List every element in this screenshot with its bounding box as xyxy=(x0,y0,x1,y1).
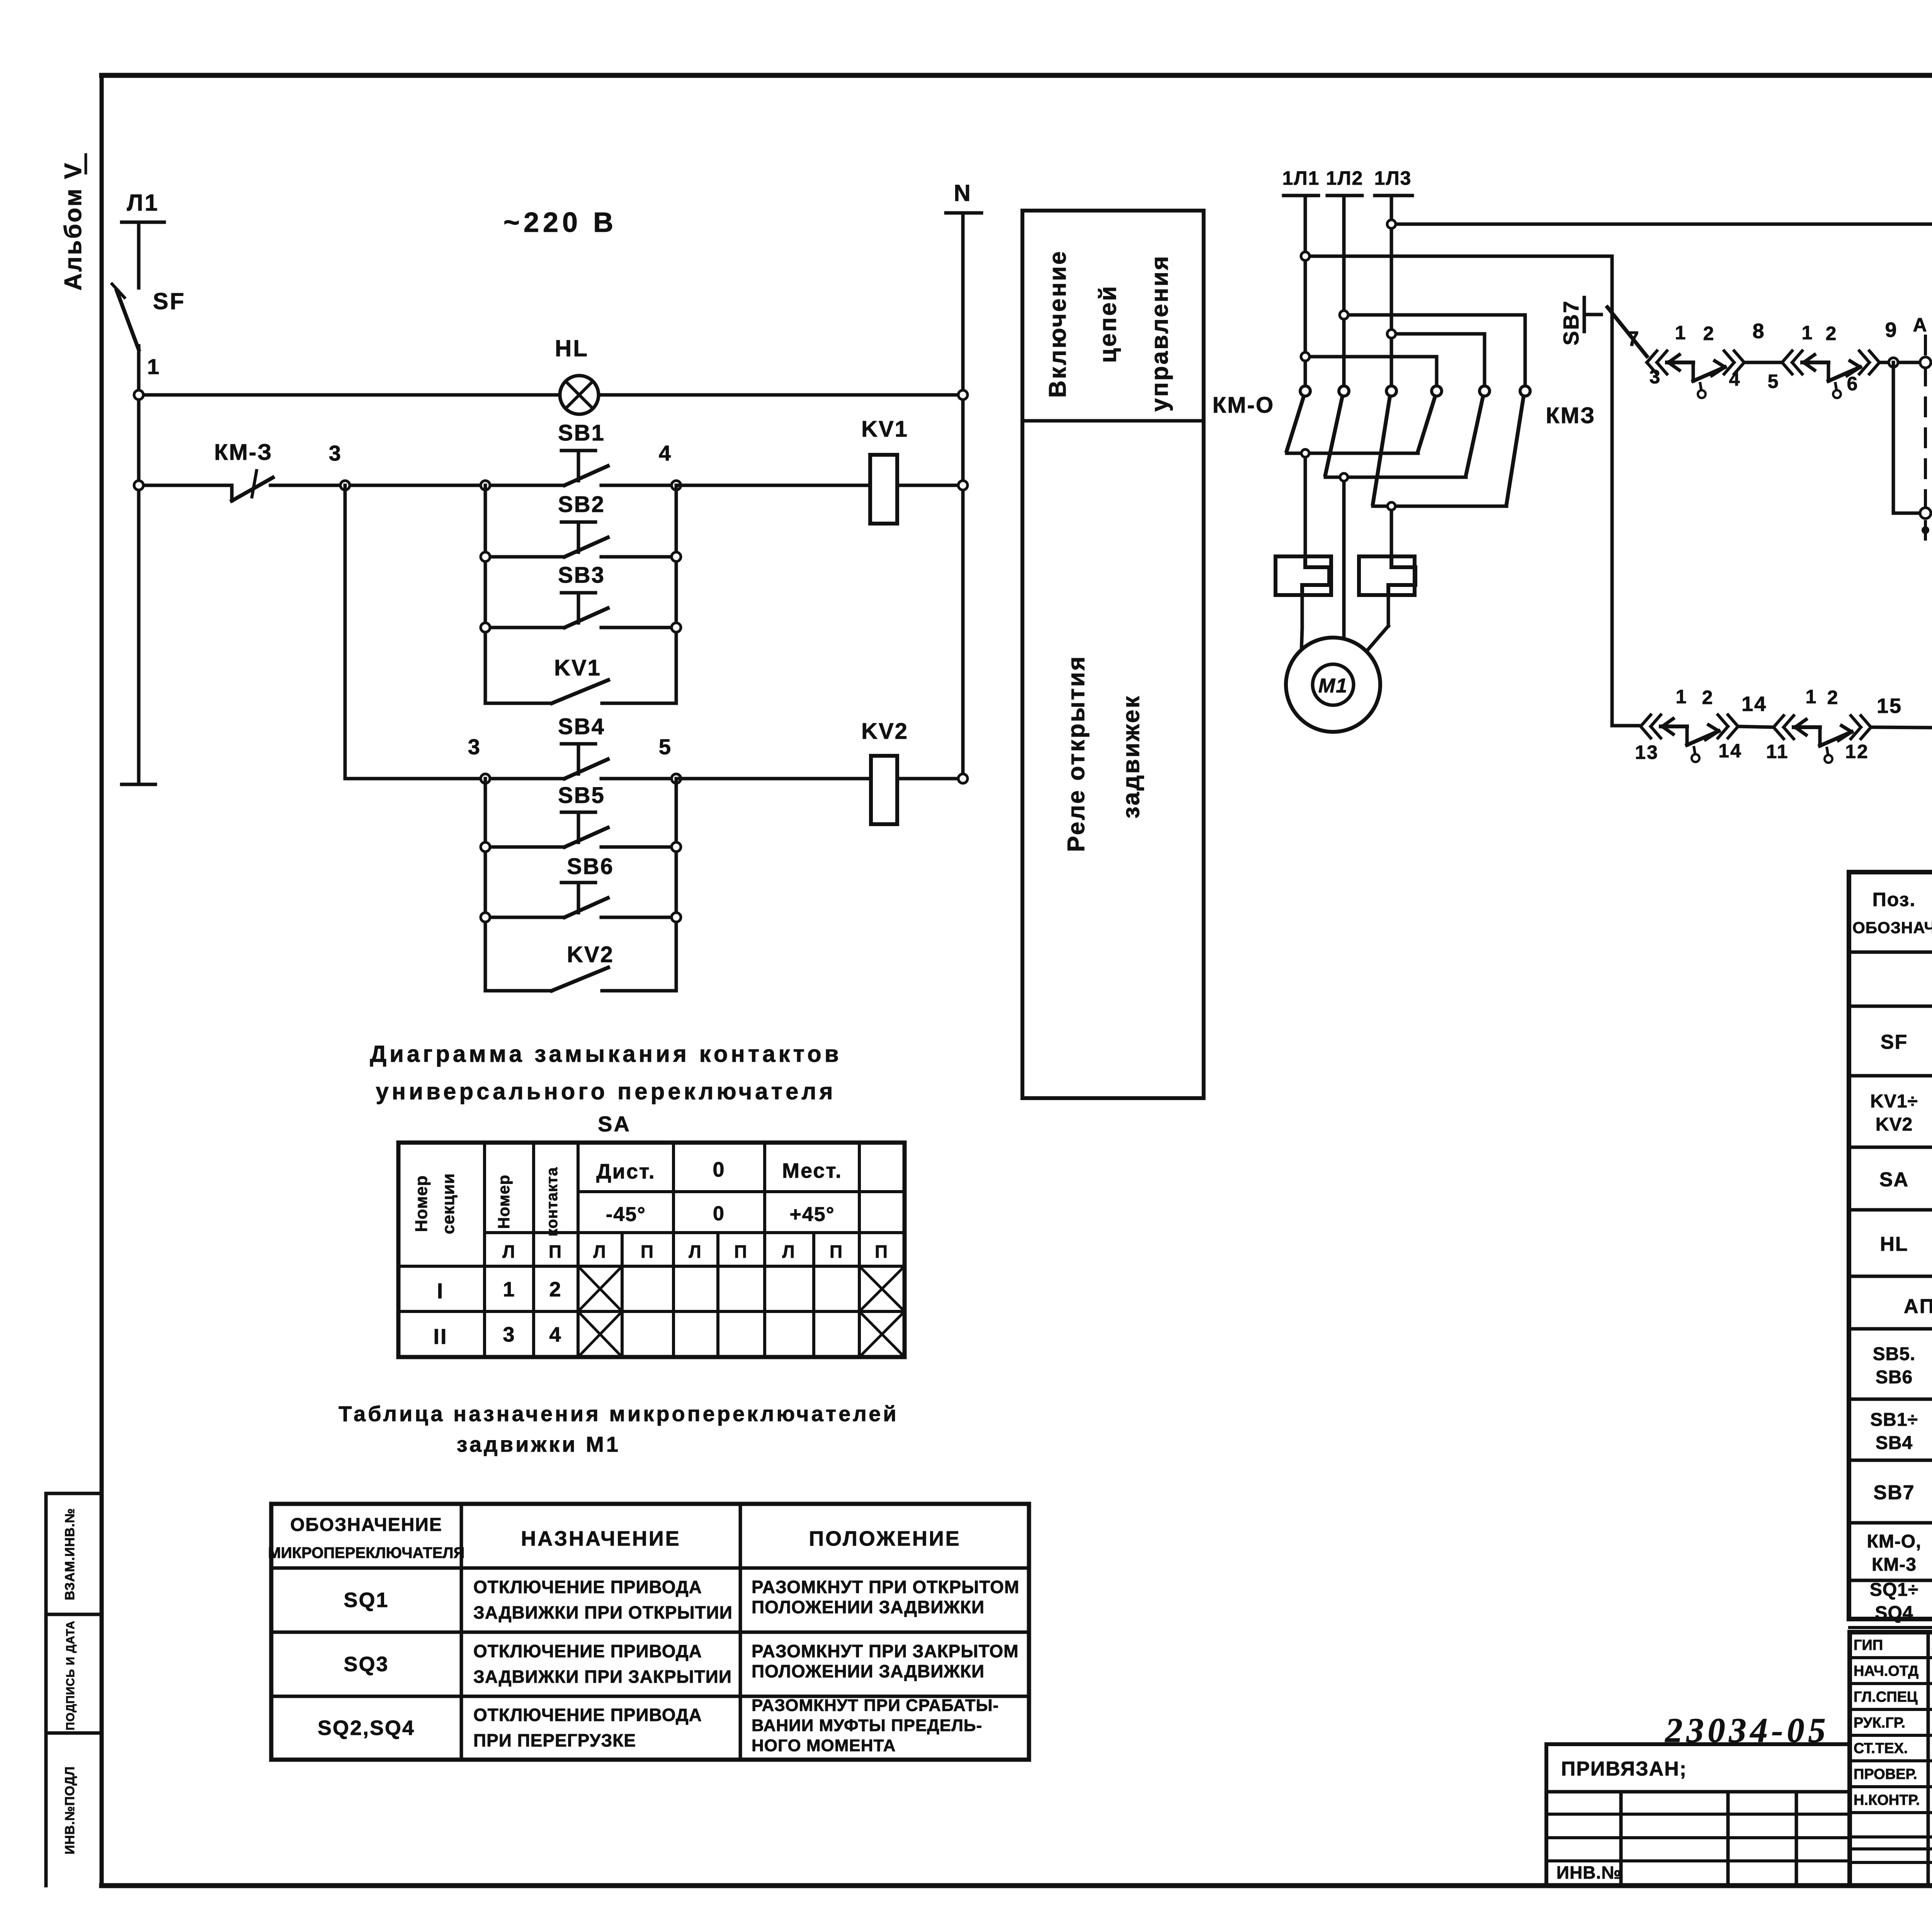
svg-text:SB4: SB4 xyxy=(558,714,605,739)
svg-text:ВЗАМ.ИНВ.№: ВЗАМ.ИНВ.№ xyxy=(63,1508,77,1600)
svg-text:Л: Л xyxy=(782,1242,796,1262)
svg-text:I: I xyxy=(437,1279,444,1303)
svg-text:~220 В: ~220 В xyxy=(503,207,617,238)
svg-text:П: П xyxy=(734,1242,748,1262)
svg-text:1Л2: 1Л2 xyxy=(1326,167,1364,189)
svg-text:РУК.ГР.: РУК.ГР. xyxy=(1854,1715,1905,1731)
svg-text:SB6: SB6 xyxy=(567,854,614,879)
svg-text:SB1: SB1 xyxy=(558,420,605,446)
svg-text:РАЗОМКНУТ ПРИ ОТКРЫТОМ: РАЗОМКНУТ ПРИ ОТКРЫТОМ xyxy=(752,1577,1019,1597)
svg-text:ПОДПИСЬ И ДАТА: ПОДПИСЬ И ДАТА xyxy=(64,1621,77,1730)
svg-text:П: П xyxy=(875,1242,889,1262)
svg-text:+45°: +45° xyxy=(789,1203,835,1226)
svg-text:РАЗОМКНУТ ПРИ СРАБАТЫ-: РАЗОМКНУТ ПРИ СРАБАТЫ- xyxy=(752,1696,999,1715)
svg-text:-45°: -45° xyxy=(606,1203,646,1226)
svg-text:Включение: Включение xyxy=(1044,250,1071,398)
svg-text:Л1: Л1 xyxy=(127,190,159,216)
svg-text:ГЛ.СПЕЦ: ГЛ.СПЕЦ xyxy=(1854,1689,1918,1705)
svg-text:Номер: Номер xyxy=(495,1175,513,1229)
svg-text:SQ1: SQ1 xyxy=(344,1588,389,1612)
svg-text:1: 1 xyxy=(1806,686,1818,707)
svg-text:3: 3 xyxy=(1650,366,1662,388)
svg-text:ОТКЛЮЧЕНИЕ ПРИВОДА: ОТКЛЮЧЕНИЕ ПРИВОДА xyxy=(473,1705,702,1725)
svg-text:3: 3 xyxy=(468,735,481,759)
svg-text:ОТКЛЮЧЕНИЕ ПРИВОДА: ОТКЛЮЧЕНИЕ ПРИВОДА xyxy=(473,1577,702,1597)
svg-text:Мест.: Мест. xyxy=(782,1159,842,1182)
svg-text:секции: секции xyxy=(439,1173,458,1234)
svg-text:Л: Л xyxy=(689,1242,702,1262)
svg-text:КМ-О: КМ-О xyxy=(1213,393,1274,418)
svg-text:2: 2 xyxy=(1827,687,1839,708)
svg-text:SB5: SB5 xyxy=(558,783,605,808)
svg-text:П: П xyxy=(549,1242,563,1262)
svg-text:13: 13 xyxy=(1635,742,1659,763)
svg-text:ЗАДВИЖКИ ПРИ ОТКРЫТИИ: ЗАДВИЖКИ ПРИ ОТКРЫТИИ xyxy=(473,1602,733,1622)
svg-text:SB5.: SB5. xyxy=(1873,1344,1916,1364)
svg-text:универсального переключателя: универсального переключателя xyxy=(376,1078,836,1104)
svg-text:ИНВ.№: ИНВ.№ xyxy=(1556,1862,1622,1883)
svg-text:3: 3 xyxy=(329,441,342,465)
svg-text:контакта: контакта xyxy=(544,1167,561,1236)
svg-text:ПРОВЕР.: ПРОВЕР. xyxy=(1854,1766,1917,1782)
svg-text:Таблица назначения микропере: Таблица назначения микропереключателей xyxy=(338,1401,898,1426)
svg-text:12: 12 xyxy=(1845,741,1869,762)
svg-text:Л: Л xyxy=(502,1242,516,1262)
svg-text:2: 2 xyxy=(1703,323,1715,344)
svg-text:SA: SA xyxy=(1879,1168,1909,1191)
svg-text:4: 4 xyxy=(549,1323,562,1346)
svg-text:ОТКЛЮЧЕНИЕ ПРИВОДА: ОТКЛЮЧЕНИЕ ПРИВОДА xyxy=(473,1641,702,1661)
svg-text:Альбом V: Альбом V xyxy=(60,162,87,291)
svg-text:1Л3: 1Л3 xyxy=(1374,167,1412,189)
svg-text:КМ-3: КМ-3 xyxy=(1872,1554,1917,1575)
svg-text:СТ.ТЕХ.: СТ.ТЕХ. xyxy=(1854,1740,1908,1757)
svg-text:11: 11 xyxy=(1766,741,1789,762)
svg-text:SQ3: SQ3 xyxy=(344,1653,389,1676)
svg-text:II: II xyxy=(433,1324,447,1349)
svg-text:Диаграмма замыкания контакто: Диаграмма замыкания контактов xyxy=(370,1041,842,1067)
svg-text:SB1÷: SB1÷ xyxy=(1870,1410,1918,1430)
svg-text:6: 6 xyxy=(1847,373,1859,395)
svg-text:0: 0 xyxy=(713,1158,725,1181)
svg-text:SB2: SB2 xyxy=(558,492,605,517)
svg-text:4: 4 xyxy=(1729,368,1741,390)
svg-text:SQ4: SQ4 xyxy=(1875,1603,1913,1623)
svg-text:Поз.: Поз. xyxy=(1872,889,1916,910)
svg-text:ОБОЗНАЧ: ОБОЗНАЧ xyxy=(1852,918,1932,937)
svg-text:ГИП: ГИП xyxy=(1854,1637,1883,1653)
svg-text:SQ2,SQ4: SQ2,SQ4 xyxy=(318,1716,415,1740)
svg-text:KV1÷: KV1÷ xyxy=(1870,1091,1918,1112)
svg-text:23034-05: 23034-05 xyxy=(1665,1711,1830,1750)
svg-text:SB6: SB6 xyxy=(1876,1367,1913,1388)
svg-text:КМ-З: КМ-З xyxy=(214,440,272,465)
svg-text:KV2: KV2 xyxy=(861,719,908,744)
svg-text:ИНВ.№ПОДЛ: ИНВ.№ПОДЛ xyxy=(63,1766,77,1854)
svg-text:9: 9 xyxy=(1885,318,1898,342)
svg-text:SF: SF xyxy=(153,288,186,314)
svg-text:SF: SF xyxy=(1881,1031,1908,1053)
svg-text:SB7: SB7 xyxy=(1559,300,1583,345)
svg-text:HL: HL xyxy=(555,335,589,361)
svg-text:НОГО МОМЕНТА: НОГО МОМЕНТА xyxy=(752,1736,896,1755)
svg-text:РАЗОМКНУТ ПРИ ЗАКРЫТОМ: РАЗОМКНУТ ПРИ ЗАКРЫТОМ xyxy=(752,1641,1019,1661)
svg-text:МИКРОПЕРЕКЛЮЧАТЕЛЯ: МИКРОПЕРЕКЛЮЧАТЕЛЯ xyxy=(268,1544,465,1561)
svg-text:ЗАДВИЖКИ ПРИ ЗАКРЫТИИ: ЗАДВИЖКИ ПРИ ЗАКРЫТИИ xyxy=(473,1667,732,1687)
svg-text:Номер: Номер xyxy=(412,1175,431,1232)
svg-text:НАЗНАЧЕНИЕ: НАЗНАЧЕНИЕ xyxy=(521,1527,681,1550)
svg-text:2: 2 xyxy=(549,1278,562,1301)
svg-text:SQ1÷: SQ1÷ xyxy=(1870,1580,1918,1600)
svg-text:SA: SA xyxy=(598,1112,631,1136)
svg-text:ОБОЗНАЧЕНИЕ: ОБОЗНАЧЕНИЕ xyxy=(290,1515,442,1535)
svg-text:цепей: цепей xyxy=(1095,285,1121,363)
svg-text:0: 0 xyxy=(713,1202,725,1225)
svg-text:ПРИВЯЗАН;: ПРИВЯЗАН; xyxy=(1561,1758,1687,1780)
svg-text:3: 3 xyxy=(503,1323,515,1346)
svg-text:8: 8 xyxy=(1752,320,1765,343)
svg-text:ВАНИИ МУФТЫ ПРЕДЕЛЬ-: ВАНИИ МУФТЫ ПРЕДЕЛЬ- xyxy=(752,1716,982,1735)
svg-text:М1: М1 xyxy=(1318,675,1348,697)
svg-text:Л: Л xyxy=(593,1242,607,1262)
svg-text:SB7: SB7 xyxy=(1873,1481,1915,1504)
svg-text:Реле открытия: Реле открытия xyxy=(1063,655,1090,852)
svg-text:HL: HL xyxy=(1880,1233,1908,1255)
svg-text:П: П xyxy=(641,1242,655,1262)
svg-text:1: 1 xyxy=(1676,686,1688,707)
svg-text:2: 2 xyxy=(1826,323,1838,344)
svg-text:задвижки М1: задвижки М1 xyxy=(457,1432,621,1456)
svg-text:1: 1 xyxy=(1675,322,1687,344)
svg-text:14: 14 xyxy=(1718,740,1742,762)
svg-text:КМЗ: КМЗ xyxy=(1546,403,1595,428)
svg-text:KV1: KV1 xyxy=(554,655,601,680)
svg-text:ПОЛОЖЕНИЕ: ПОЛОЖЕНИЕ xyxy=(809,1527,961,1550)
svg-text:KV1: KV1 xyxy=(861,417,908,442)
svg-text:1Л1: 1Л1 xyxy=(1282,167,1320,189)
svg-text:НАЧ.ОТД: НАЧ.ОТД xyxy=(1854,1663,1918,1679)
svg-text:2: 2 xyxy=(1702,687,1714,708)
svg-text:управления: управления xyxy=(1146,255,1173,412)
svg-text:5: 5 xyxy=(1768,371,1780,392)
svg-text:КМ-О,: КМ-О, xyxy=(1867,1531,1922,1552)
svg-text:15: 15 xyxy=(1877,694,1902,718)
svg-text:ПОЛОЖЕНИИ ЗАДВИЖКИ: ПОЛОЖЕНИИ ЗАДВИЖКИ xyxy=(752,1597,985,1617)
svg-text:N: N xyxy=(954,180,972,206)
svg-text:KV2: KV2 xyxy=(567,942,614,967)
svg-text:ПРИ ПЕРЕГРУЗКЕ: ПРИ ПЕРЕГРУЗКЕ xyxy=(473,1730,636,1750)
svg-text:14: 14 xyxy=(1742,692,1767,716)
svg-text:1: 1 xyxy=(1802,322,1814,344)
svg-text:А: А xyxy=(1913,314,1928,336)
svg-text:АППАРАТУРА, УСТАНОВЛЕННАЯ ПО: АППАРАТУРА, УСТАНОВЛЕННАЯ ПО МЕСТУ xyxy=(1904,1295,1932,1318)
svg-text:задвижек: задвижек xyxy=(1118,695,1145,819)
svg-text:SB4: SB4 xyxy=(1876,1433,1913,1453)
svg-text:4: 4 xyxy=(659,441,672,465)
svg-text:1: 1 xyxy=(147,354,160,379)
svg-text:KV2: KV2 xyxy=(1876,1114,1913,1135)
svg-text:5: 5 xyxy=(659,735,672,759)
svg-text:ПОЛОЖЕНИИ ЗАДВИЖКИ: ПОЛОЖЕНИИ ЗАДВИЖКИ xyxy=(752,1661,985,1681)
svg-text:Дист.: Дист. xyxy=(596,1160,655,1183)
svg-text:Н.КОНТР.: Н.КОНТР. xyxy=(1854,1792,1920,1808)
svg-text:7: 7 xyxy=(1627,327,1640,350)
svg-text:П: П xyxy=(830,1242,844,1262)
svg-text:1: 1 xyxy=(503,1278,515,1301)
svg-text:SB3: SB3 xyxy=(558,563,605,588)
